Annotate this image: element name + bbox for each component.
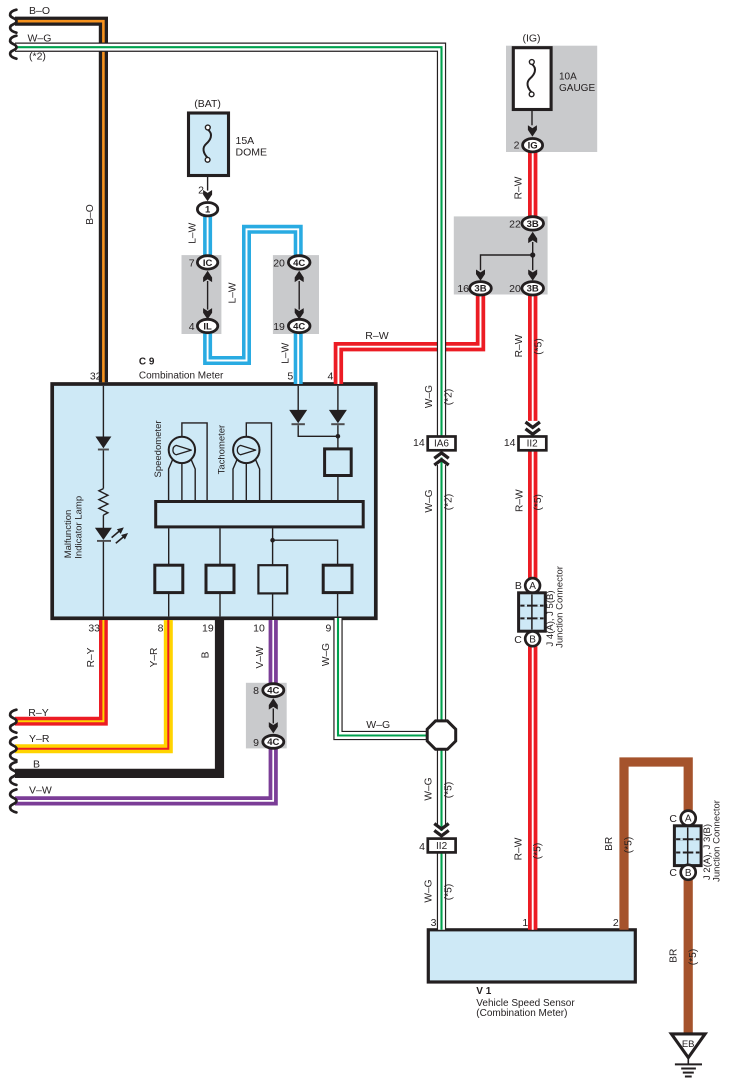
svg-text:B: B (685, 868, 692, 879)
svg-text:10: 10 (253, 623, 265, 635)
svg-text:19: 19 (202, 623, 214, 635)
double chevron into II2 lower (434, 824, 448, 836)
svg-text:B: B (33, 759, 40, 771)
svg-text:R–W: R–W (515, 489, 526, 512)
svg-text:Junction Connector: Junction Connector (554, 566, 565, 648)
wire LED to pin 33 (102, 541, 104, 617)
svg-text:C 9: C 9 (139, 357, 155, 368)
svg-text:4C: 4C (267, 686, 279, 697)
wire V-W 4C to left edge (15, 748, 273, 801)
svg-text:W–G: W–G (424, 489, 435, 512)
svg-text:R–Y: R–Y (28, 707, 48, 719)
svg-text:14: 14 (413, 437, 425, 449)
svg-text:A: A (529, 581, 536, 592)
svg-text:(*5): (*5) (688, 949, 699, 965)
gray box 4C connector upper (273, 255, 319, 334)
vehicle speed sensor V1 box (428, 930, 635, 982)
svg-text:A: A (685, 814, 692, 825)
svg-text:GAUGE: GAUGE (559, 83, 595, 94)
wire Y-R meter pin 8 (15, 620, 168, 749)
svg-text:V–W: V–W (255, 646, 266, 668)
svg-text:22: 22 (509, 218, 521, 230)
diode D1 in MIL branch (95, 437, 111, 450)
double chevron into II2 upper (526, 422, 540, 434)
svg-text:(*5): (*5) (534, 338, 545, 354)
double chevron into IA6 (434, 453, 448, 465)
wire W-G (*5) II2 to VSS pin 3 (437, 853, 446, 930)
junction connector J2(A) J3(B) (674, 811, 701, 880)
svg-text:EB: EB (682, 1039, 695, 1050)
svg-text:10A: 10A (559, 72, 577, 83)
svg-text:32: 32 (90, 371, 102, 383)
svg-text:Junction Connector: Junction Connector (712, 800, 723, 882)
svg-text:(IG): (IG) (522, 33, 540, 45)
svg-text:W–G: W–G (28, 33, 52, 45)
svg-text:1: 1 (205, 205, 211, 216)
svg-text:W–G: W–G (321, 643, 332, 666)
wire R-W 3B-16 to meter pin 4 (338, 295, 480, 384)
svg-text:R–W: R–W (514, 334, 525, 357)
wire R-W (*5) 3B-20 down to II2 (528, 295, 537, 421)
arrow into terminal 1 (203, 190, 212, 201)
diode D2 from pin 5 (289, 386, 338, 436)
svg-text:BR: BR (604, 837, 615, 851)
wire R-W fuse IG to 3B-22 (528, 152, 537, 217)
svg-text:20: 20 (509, 283, 521, 295)
svg-text:R–W: R–W (514, 837, 525, 860)
octagon junction W-G (427, 721, 456, 749)
svg-text:R–Y: R–Y (86, 647, 97, 667)
gray box IC/IL connector (182, 255, 222, 334)
wire B-O top left, over the W-G (15, 21, 103, 382)
wire L-W IL to 4C loop (208, 229, 299, 360)
terminal oval IG (523, 139, 543, 152)
svg-text:33: 33 (88, 623, 100, 635)
leads bus to lower squares (169, 528, 338, 616)
svg-text:W–G: W–G (424, 879, 435, 902)
svg-text:B: B (201, 651, 212, 658)
svg-text:IC: IC (203, 258, 213, 269)
svg-text:Y–R: Y–R (29, 733, 50, 745)
svg-text:L–W: L–W (187, 222, 198, 243)
gray box 3B connector (454, 216, 548, 294)
small box under diodes (325, 449, 352, 476)
svg-text:4: 4 (189, 321, 195, 333)
junction node dot on branch (270, 538, 275, 543)
connector box 4 II2 (428, 839, 456, 853)
fuse box 10A GAUGE (513, 48, 551, 110)
svg-text:20: 20 (273, 257, 285, 269)
gray box IG fuse (506, 46, 597, 152)
diode D3 from pin 4 (329, 386, 347, 449)
svg-text:Combination Meter: Combination Meter (139, 370, 224, 381)
svg-text:2: 2 (613, 917, 619, 929)
rotated labels (85, 176, 699, 965)
wire R-Y meter pin 33 (15, 620, 103, 721)
svg-text:9: 9 (253, 737, 259, 749)
lower square pin 8 (155, 565, 183, 592)
wire V-W meter pin 10 to 4C (269, 620, 278, 684)
lower square pin 9 (323, 565, 352, 592)
svg-text:(*5): (*5) (624, 837, 635, 853)
svg-text:(*5): (*5) (443, 884, 454, 900)
svg-text:II2: II2 (436, 841, 448, 852)
connector oval 3B-20 (522, 282, 544, 295)
connector box 14 II2 (519, 437, 547, 451)
connector ovals 4C upper pair (288, 256, 310, 269)
svg-text:1: 1 (522, 917, 528, 929)
svg-text:4: 4 (327, 370, 333, 382)
svg-text:4C: 4C (267, 737, 279, 748)
LED malfunction indicator lamp (95, 525, 130, 546)
wire stub through chevrons at II2 lower (438, 824, 445, 832)
svg-text:BR: BR (669, 949, 680, 963)
svg-text:(Combination Meter): (Combination Meter) (476, 1008, 567, 1019)
svg-text:3: 3 (431, 917, 437, 929)
arrow into terminal IG (528, 125, 537, 136)
wire BR J2 circle B to ground EB (684, 880, 693, 1034)
svg-text:9: 9 (325, 623, 331, 635)
gray box 4C connector lower (246, 683, 287, 749)
link lines 3B with branch (481, 242, 533, 270)
svg-text:3B: 3B (527, 219, 539, 230)
svg-text:(*2): (*2) (444, 494, 455, 510)
svg-text:4C: 4C (293, 321, 305, 332)
svg-text:Malfunction: Malfunction (63, 510, 74, 559)
svg-text:5: 5 (287, 370, 293, 382)
svg-text:16: 16 (457, 283, 469, 295)
svg-text:L–W: L–W (227, 282, 238, 303)
lower square pin 10 (258, 565, 287, 593)
svg-text:B–O: B–O (85, 204, 96, 224)
junction connector J4(A) J5(B) (519, 578, 546, 646)
svg-text:IL: IL (203, 321, 212, 332)
svg-text:DOME: DOME (236, 147, 268, 159)
svg-text:14: 14 (504, 437, 516, 449)
svg-text:(*5): (*5) (443, 782, 454, 798)
terminal oval 1 (197, 203, 217, 216)
svg-text:7: 7 (189, 257, 195, 269)
svg-text:L–W: L–W (281, 342, 292, 363)
wire R-W (*5) J4 circle B to VSS pin 1 (528, 646, 537, 930)
svg-text:8: 8 (253, 685, 259, 697)
svg-text:C: C (514, 634, 522, 646)
connector ovals 4C lower pair (V-W) (263, 684, 284, 697)
break squiggles left edge (10, 10, 16, 33)
svg-text:4: 4 (419, 841, 425, 853)
svg-text:Speedometer: Speedometer (153, 420, 164, 477)
wire B meter pin 19 (15, 620, 220, 773)
wire R-W (*5) II2 to J4 circle A (528, 450, 537, 578)
tachometer gauge (233, 423, 272, 500)
svg-text:(*2): (*2) (444, 389, 455, 405)
connector box 14 IA6 (428, 437, 456, 451)
lower square pin 19 (206, 565, 234, 592)
wire L-W fuse to IC (203, 216, 212, 256)
fuse box 15A DOME (189, 113, 229, 176)
svg-text:3B: 3B (527, 284, 539, 295)
svg-text:2: 2 (514, 140, 520, 152)
svg-text:15A: 15A (236, 135, 255, 147)
svg-text:R–W: R–W (365, 330, 388, 342)
svg-text:W–G: W–G (366, 719, 390, 731)
svg-text:V–W: V–W (29, 784, 52, 796)
svg-text:(*2): (*2) (29, 51, 46, 63)
junction connector circle letters (529, 581, 692, 879)
resistor in MIL branch (99, 489, 108, 515)
svg-text:3B: 3B (474, 284, 486, 295)
svg-text:Tachometer: Tachometer (216, 425, 227, 475)
svg-text:4C: 4C (293, 258, 305, 269)
speedometer gauge (169, 423, 208, 500)
svg-text:(BAT): (BAT) (194, 98, 221, 110)
svg-text:B: B (529, 634, 536, 645)
connector ovals 3B pair (522, 217, 544, 230)
svg-text:IA6: IA6 (434, 439, 449, 450)
wire BR VSS pin 2 to J2 circle A (624, 762, 688, 930)
svg-text:(*5): (*5) (533, 843, 544, 859)
svg-text:Indicator Lamp: Indicator Lamp (73, 496, 84, 559)
svg-text:W–G: W–G (424, 777, 435, 800)
wire MIL branch from pin 32 (102, 386, 104, 437)
bus bar rectangle (156, 502, 364, 527)
wire W-G (*5) octagon to II2 (437, 749, 446, 825)
ground EB (671, 1034, 705, 1077)
combination meter C9 box (52, 384, 376, 618)
svg-text:V 1: V 1 (476, 986, 491, 997)
wire W-G horizontal top + vertical (*2) down to IA6 (15, 47, 442, 438)
node dot 3B branch (530, 252, 535, 257)
fuse element 15A DOME (204, 125, 212, 191)
wire W-G (*2) IA6 to octagon junction (437, 465, 446, 721)
svg-text:IG: IG (528, 141, 538, 152)
svg-text:C: C (669, 867, 677, 879)
svg-text:C: C (669, 813, 677, 825)
wire stub through chevrons at IA6 (438, 458, 445, 467)
svg-text:8: 8 (158, 623, 164, 635)
svg-text:Y–R: Y–R (149, 648, 160, 668)
svg-text:W–G: W–G (424, 385, 435, 408)
svg-text:19: 19 (273, 321, 285, 333)
connector oval 3B-16 (470, 282, 492, 295)
junction node dot (336, 434, 341, 439)
svg-text:2: 2 (198, 185, 204, 197)
wire L-W 4C to meter pin 5 (294, 333, 303, 384)
svg-text:(*5): (*5) (533, 494, 544, 510)
svg-text:II2: II2 (527, 439, 539, 450)
svg-text:B–O: B–O (29, 5, 50, 17)
wire W-G meter pin 9 to octagon (338, 618, 427, 736)
connector ovals IC/IL (197, 256, 217, 269)
svg-text:R–W: R–W (514, 176, 525, 199)
terminal oval texts (203, 141, 539, 749)
fuse element 10A GAUGE (528, 60, 536, 126)
svg-text:B: B (515, 580, 522, 592)
